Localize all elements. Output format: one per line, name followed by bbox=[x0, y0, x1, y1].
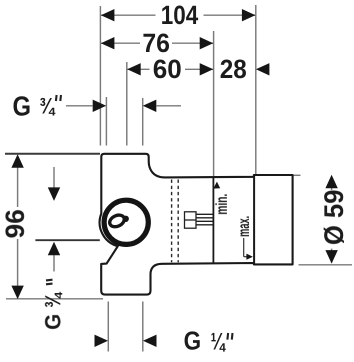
svg-text:28: 28 bbox=[220, 54, 247, 84]
svg-text:¾: ¾ bbox=[40, 292, 65, 308]
svg-text:¼: ¼ bbox=[211, 328, 226, 355]
svg-text:60: 60 bbox=[153, 54, 182, 84]
svg-text:Ø 59: Ø 59 bbox=[319, 190, 349, 246]
svg-text:¾: ¾ bbox=[39, 93, 56, 118]
svg-text:96: 96 bbox=[0, 209, 30, 238]
svg-text:G: G bbox=[13, 91, 32, 122]
svg-text:G: G bbox=[184, 325, 202, 355]
svg-text:max.: max. bbox=[236, 216, 253, 237]
svg-text:104: 104 bbox=[161, 0, 199, 30]
svg-text:G: G bbox=[40, 314, 65, 330]
svg-text:min.: min. bbox=[214, 194, 231, 215]
